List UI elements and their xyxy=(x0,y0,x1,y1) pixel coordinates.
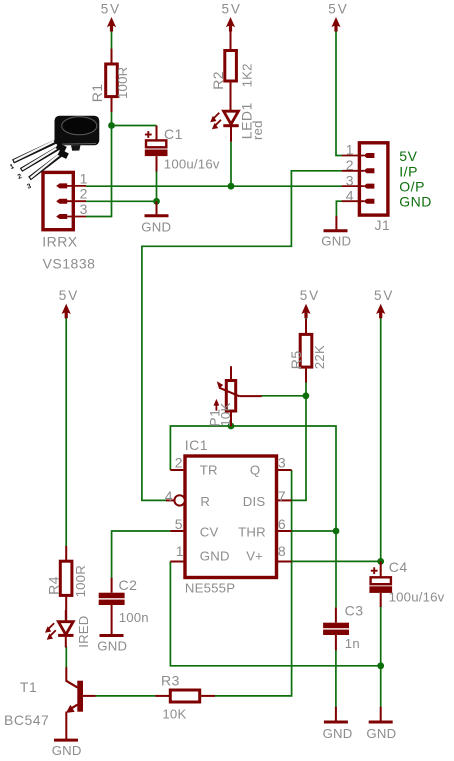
svg-text:red: red xyxy=(250,120,265,140)
node VCC junction R1/C1/IRRX xyxy=(108,122,115,129)
SUPPLIES xyxy=(59,1,395,318)
svg-text:3: 3 xyxy=(80,201,88,217)
svg-text:5V: 5V xyxy=(374,288,394,303)
IRRX pin 1 xyxy=(56,170,88,188)
wire TR THR net xyxy=(170,426,336,608)
LEDS xyxy=(45,102,265,648)
wire 555 GND pin1 to ground rail xyxy=(170,562,380,666)
svg-text:GND: GND xyxy=(52,743,82,758)
svg-text:GND: GND xyxy=(141,220,171,235)
ground T1 emitter xyxy=(52,740,82,758)
svg-text:5V: 5V xyxy=(300,288,320,303)
wire VCC junction to C1 xyxy=(112,125,157,127)
svg-text:Q: Q xyxy=(250,462,260,477)
svg-text:THR: THR xyxy=(238,525,266,540)
svg-text:5V: 5V xyxy=(59,288,79,303)
VS1838 photo leg 3 xyxy=(30,153,64,179)
wire LED1 cathode to OUT net xyxy=(230,142,232,187)
svg-text:5V: 5V xyxy=(328,1,348,16)
op-amp U1 IC1 box xyxy=(185,456,277,578)
supply 5V for R5 xyxy=(300,288,320,319)
supply 5V for R1 xyxy=(101,1,121,31)
svg-text:22K: 22K xyxy=(312,345,327,369)
svg-text:R3: R3 xyxy=(161,672,180,688)
J1 pin 3 xyxy=(342,172,375,188)
ground C3 xyxy=(323,707,353,741)
GND SYMBOLS xyxy=(52,201,397,758)
svg-text:C4: C4 xyxy=(389,559,408,575)
svg-text:TR: TR xyxy=(200,462,218,477)
svg-text:4: 4 xyxy=(346,187,354,203)
supply 5V for J1 xyxy=(328,1,348,31)
svg-text:R1: R1 xyxy=(89,83,105,102)
node TR junction P1 bottom xyxy=(228,423,235,430)
VS1838 photo leg 2 xyxy=(21,146,61,170)
ground IRRX C1 xyxy=(141,201,171,234)
svg-text:100u/16v: 100u/16v xyxy=(389,590,445,605)
T1 emitter with arrow xyxy=(66,705,78,740)
wire VCC junction down to IRRX pin3 xyxy=(86,126,112,217)
node ground rail C4 junction xyxy=(377,662,384,669)
svg-text:BC547: BC547 xyxy=(4,712,49,728)
svg-text:O/P: O/P xyxy=(399,178,425,194)
wire C4 junction down to C4 plus xyxy=(380,561,382,570)
wire 555 V+ pin8 to C4 junction xyxy=(292,560,381,562)
resistor R2 1K2 xyxy=(210,31,255,111)
svg-text:IRED: IRED xyxy=(76,615,91,647)
wire 555 Q pin3 down to R3 xyxy=(215,470,292,696)
LED LED1 red xyxy=(210,102,265,142)
wire J1 pin2 I/P to 555 reset pin4 xyxy=(142,171,342,501)
svg-text:IRRX: IRRX xyxy=(42,233,78,249)
J1 CONNECTOR xyxy=(342,142,432,233)
wire 5V to J1 pin1 xyxy=(336,31,342,156)
svg-text:R4: R4 xyxy=(45,576,61,595)
svg-text:3: 3 xyxy=(278,455,286,471)
capacitor C2 100n xyxy=(99,577,149,625)
VS1838 photo dome xyxy=(62,117,97,135)
capacitor C4 100u/16v electrolytic xyxy=(369,559,444,607)
svg-text:T1: T1 xyxy=(20,679,37,695)
IR RECEIVER PHOTO xyxy=(9,116,99,191)
wire P1 wiper to DIS junction xyxy=(262,395,307,397)
pin 7 DIS xyxy=(243,488,292,509)
svg-text:VS1838: VS1838 xyxy=(43,255,96,271)
node V+ C4 junction xyxy=(377,558,384,565)
svg-text:8: 8 xyxy=(278,543,286,559)
svg-text:3: 3 xyxy=(346,172,354,188)
svg-text:7: 7 xyxy=(278,488,286,504)
svg-text:1K2: 1K2 xyxy=(240,63,255,87)
svg-text:6: 6 xyxy=(278,516,286,532)
VS1838 photo bottom edge highlight xyxy=(62,143,96,146)
svg-text:C2: C2 xyxy=(119,577,138,593)
wire C4 bottom to ground xyxy=(380,606,382,708)
svg-text:V+: V+ xyxy=(246,549,263,564)
svg-text:DIS: DIS xyxy=(243,494,266,509)
J1 pin 2 xyxy=(342,157,375,173)
svg-text:GND: GND xyxy=(323,726,353,741)
wire 555 THR pin6 to junction xyxy=(292,530,337,532)
VS1838 photo tab xyxy=(71,145,81,151)
VS1838 photo leg 1 xyxy=(13,140,59,162)
svg-text:2: 2 xyxy=(175,455,183,471)
svg-text:1: 1 xyxy=(176,543,184,559)
svg-text:10K: 10K xyxy=(162,706,186,721)
wire IRRX pin2 to GND junction xyxy=(86,200,157,202)
node THR junction xyxy=(333,528,340,535)
svg-text:C3: C3 xyxy=(345,602,364,618)
svg-text:C1: C1 xyxy=(164,126,183,142)
pin 1 GND xyxy=(170,543,229,563)
svg-text:IC1: IC1 xyxy=(185,437,208,453)
ground J1 pin4 xyxy=(321,216,351,249)
svg-text:GND: GND xyxy=(366,726,396,741)
wire 555 CV pin5 to C2 xyxy=(112,531,171,578)
capacitor C1 100u/16v electrolytic xyxy=(145,126,220,172)
wire R5 bottom through DIS junction to 555 pin7 xyxy=(292,382,307,500)
resistor R1 100R xyxy=(89,49,130,112)
ground C2 xyxy=(97,620,127,654)
connector IRRX box xyxy=(43,172,73,229)
pin 3 Q xyxy=(250,455,292,478)
wire 5V to R4 xyxy=(65,318,67,547)
svg-text:10K: 10K xyxy=(218,403,233,427)
svg-text:100R: 100R xyxy=(73,565,88,597)
svg-text:GND: GND xyxy=(97,639,127,654)
VS1838 photo body xyxy=(55,116,100,146)
node DIS junction R5/P1 wiper xyxy=(303,392,310,399)
node GND junction IRRX/C1 xyxy=(153,198,160,205)
resistor R3 10K horizontal xyxy=(155,672,215,721)
wire R1 to VCC junction xyxy=(111,112,113,126)
supply 5V for C4 and V+ xyxy=(374,288,394,319)
svg-text:1: 1 xyxy=(346,142,354,158)
IRRX pin 2 xyxy=(56,186,88,204)
node OUT junction LED1 xyxy=(228,183,235,190)
CAPACITORS xyxy=(99,126,445,651)
ground C4 xyxy=(366,707,396,741)
resistor R5 22K xyxy=(288,319,327,382)
wire C3 bottom to ground xyxy=(335,650,337,708)
wire 5V down to V+ junction xyxy=(380,318,382,562)
svg-text:5V: 5V xyxy=(222,1,242,16)
svg-text:1n: 1n xyxy=(345,636,360,651)
transistor Q1 T1 base bar xyxy=(77,681,83,712)
wire R3 to T1 base xyxy=(95,695,155,697)
svg-text:100R: 100R xyxy=(115,67,130,99)
svg-text:R: R xyxy=(200,494,210,509)
J1 pin 1 xyxy=(342,142,375,158)
RESISTORS xyxy=(45,31,327,721)
wire OUT net IRRX pin1 to J1 pin3 xyxy=(86,185,342,187)
capacitor C3 1n xyxy=(323,602,363,651)
svg-text:4: 4 xyxy=(165,488,173,504)
resistor R4 100R xyxy=(45,546,88,621)
wire IRED cathode to T1 collector xyxy=(65,647,67,669)
connector J1 box xyxy=(359,143,388,215)
svg-text:1: 1 xyxy=(80,170,88,186)
svg-text:5: 5 xyxy=(175,516,183,532)
IC1 NE555P xyxy=(165,437,292,596)
IRRX CONNECTOR xyxy=(42,170,95,271)
pin 5 CV xyxy=(170,516,218,540)
pin 8 V+ xyxy=(246,543,291,563)
TRANSISTOR T1 xyxy=(4,667,96,740)
svg-text:2: 2 xyxy=(346,157,354,173)
wire 5V to R5 xyxy=(305,318,307,320)
svg-text:100n: 100n xyxy=(119,610,149,625)
trimmer P1 10K xyxy=(207,366,262,427)
svg-text:5V: 5V xyxy=(101,1,121,16)
svg-text:2: 2 xyxy=(80,186,88,202)
svg-text:GND: GND xyxy=(321,234,351,249)
pin 6 THR xyxy=(238,516,292,540)
supply 5V for R2 LED1 xyxy=(222,1,242,31)
pin 4 R with bubble xyxy=(165,488,210,509)
wire 5V to R1 xyxy=(111,31,113,50)
svg-text:CV: CV xyxy=(200,525,219,540)
VS1838 photo leg stubs xyxy=(55,139,68,156)
LED IRED infrared xyxy=(45,610,91,648)
wire J1 pin4 to GND symbol xyxy=(336,201,342,216)
T1 base pin xyxy=(83,695,96,697)
svg-text:J1: J1 xyxy=(375,217,391,233)
supply 5V for R4 xyxy=(59,288,79,319)
svg-text:I/P: I/P xyxy=(399,164,418,180)
J1 pin 4 xyxy=(342,187,375,203)
svg-text:R5: R5 xyxy=(288,350,304,369)
pin 2 TR xyxy=(170,455,217,478)
IRRX pin 3 xyxy=(56,201,88,219)
svg-text:100u/16v: 100u/16v xyxy=(164,156,220,171)
wire C1 bottom to GND junction xyxy=(156,171,158,201)
T1 collector xyxy=(66,667,78,687)
svg-text:GND: GND xyxy=(399,194,432,210)
svg-text:NE555P: NE555P xyxy=(185,581,235,596)
svg-text:5V: 5V xyxy=(399,148,417,164)
svg-text:R2: R2 xyxy=(210,71,226,90)
svg-text:GND: GND xyxy=(200,549,230,564)
